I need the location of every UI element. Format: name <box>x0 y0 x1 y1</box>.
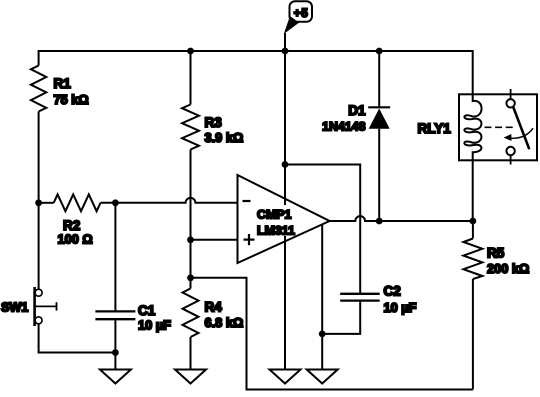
svg-text:RLY1: RLY1 <box>418 121 452 136</box>
wire R5 to bottom rail <box>472 279 474 390</box>
wire relay to output node <box>472 160 474 221</box>
node D1 top rail junction <box>376 48 383 55</box>
svg-text:R5: R5 <box>487 246 505 261</box>
svg-text:C1: C1 <box>138 303 156 318</box>
ground (op-amp V+/body pin) <box>270 370 301 384</box>
svg-text:1N4148: 1N4148 <box>322 120 366 134</box>
svg-text:CMP1: CMP1 <box>257 208 292 222</box>
node +5 branch junction <box>282 161 289 168</box>
svg-text:C2: C2 <box>384 284 401 299</box>
wire top rail <box>39 51 473 94</box>
node D1 output junction <box>376 218 383 225</box>
svg-text:3.9 kΩ: 3.9 kΩ <box>205 130 244 145</box>
op-amp U1 CMP1 LM311 <box>238 175 330 263</box>
ground (R4) <box>175 370 206 384</box>
svg-text:R4: R4 <box>205 300 223 315</box>
dashed link <box>485 126 515 128</box>
svg-text:10 µF: 10 µF <box>384 300 417 315</box>
capacitor C1 <box>95 203 171 353</box>
node noninverting input junction <box>187 236 194 243</box>
wire +5 branch to C2 <box>285 165 360 294</box>
wire branch to bottom rail <box>191 278 473 390</box>
diode D1 1N4148 <box>322 51 390 222</box>
power flag +5 <box>285 1 312 50</box>
switch contacts <box>510 89 512 99</box>
svg-text:SW1: SW1 <box>1 301 28 315</box>
wire R4 to ground <box>190 337 192 370</box>
node C1 bottom / SW1 junction <box>112 349 119 356</box>
node relay/R5/output junction <box>470 218 477 225</box>
node R1/R2/SW1 junction <box>35 199 42 206</box>
resistor R5 <box>463 221 529 279</box>
svg-text:+5: +5 <box>294 8 309 20</box>
wire op-amp gnd pin <box>321 224 323 370</box>
wire +5 down to op-amp V+ <box>284 51 286 165</box>
ground (C1/SW1) <box>100 370 131 384</box>
node R4 top / feedback branch junction <box>187 274 194 281</box>
relay RLY1 <box>418 89 538 165</box>
wire left column down to SW1 <box>38 203 40 289</box>
wire R1 bottom to R2 node <box>38 112 40 203</box>
svg-text:R3: R3 <box>205 115 223 130</box>
node top rail R3 junction <box>187 48 194 55</box>
switch SW1 <box>1 287 57 326</box>
wire SW1 bottom to ground rail <box>39 324 116 353</box>
wire noninverting input <box>191 239 238 241</box>
svg-text:LM311: LM311 <box>257 224 295 238</box>
resistor R3 <box>182 51 243 150</box>
resistor R4 <box>183 289 244 338</box>
svg-text:10 µF: 10 µF <box>138 318 171 333</box>
node R2/C1/inverting-input junction <box>112 199 119 206</box>
svg-text:100 Ω: 100 Ω <box>58 232 93 247</box>
node C2 bottom junction <box>319 331 326 338</box>
capacitor C2 <box>322 284 416 334</box>
svg-text:200 kΩ: 200 kΩ <box>487 261 529 276</box>
node +5 top rail junction <box>282 48 289 55</box>
svg-text:75 kΩ: 75 kΩ <box>54 92 89 107</box>
ground (op-amp gnd pin / C2) <box>307 370 338 384</box>
resistor R2 <box>39 194 101 246</box>
svg-text:R1: R1 <box>54 76 72 91</box>
wire op-amp V+ pin through body to ground <box>284 165 286 370</box>
coil <box>464 94 481 160</box>
svg-text:D1: D1 <box>348 103 366 118</box>
resistor R1 <box>31 66 89 112</box>
wire op-amp output with hump over C2 column <box>330 216 473 221</box>
arrow <box>508 128 534 138</box>
wire R3 bottom through hump to R4 <box>190 150 192 289</box>
svg-text:6.8 kΩ: 6.8 kΩ <box>205 315 244 330</box>
wire inverting input with hump over R3 column <box>101 198 238 203</box>
